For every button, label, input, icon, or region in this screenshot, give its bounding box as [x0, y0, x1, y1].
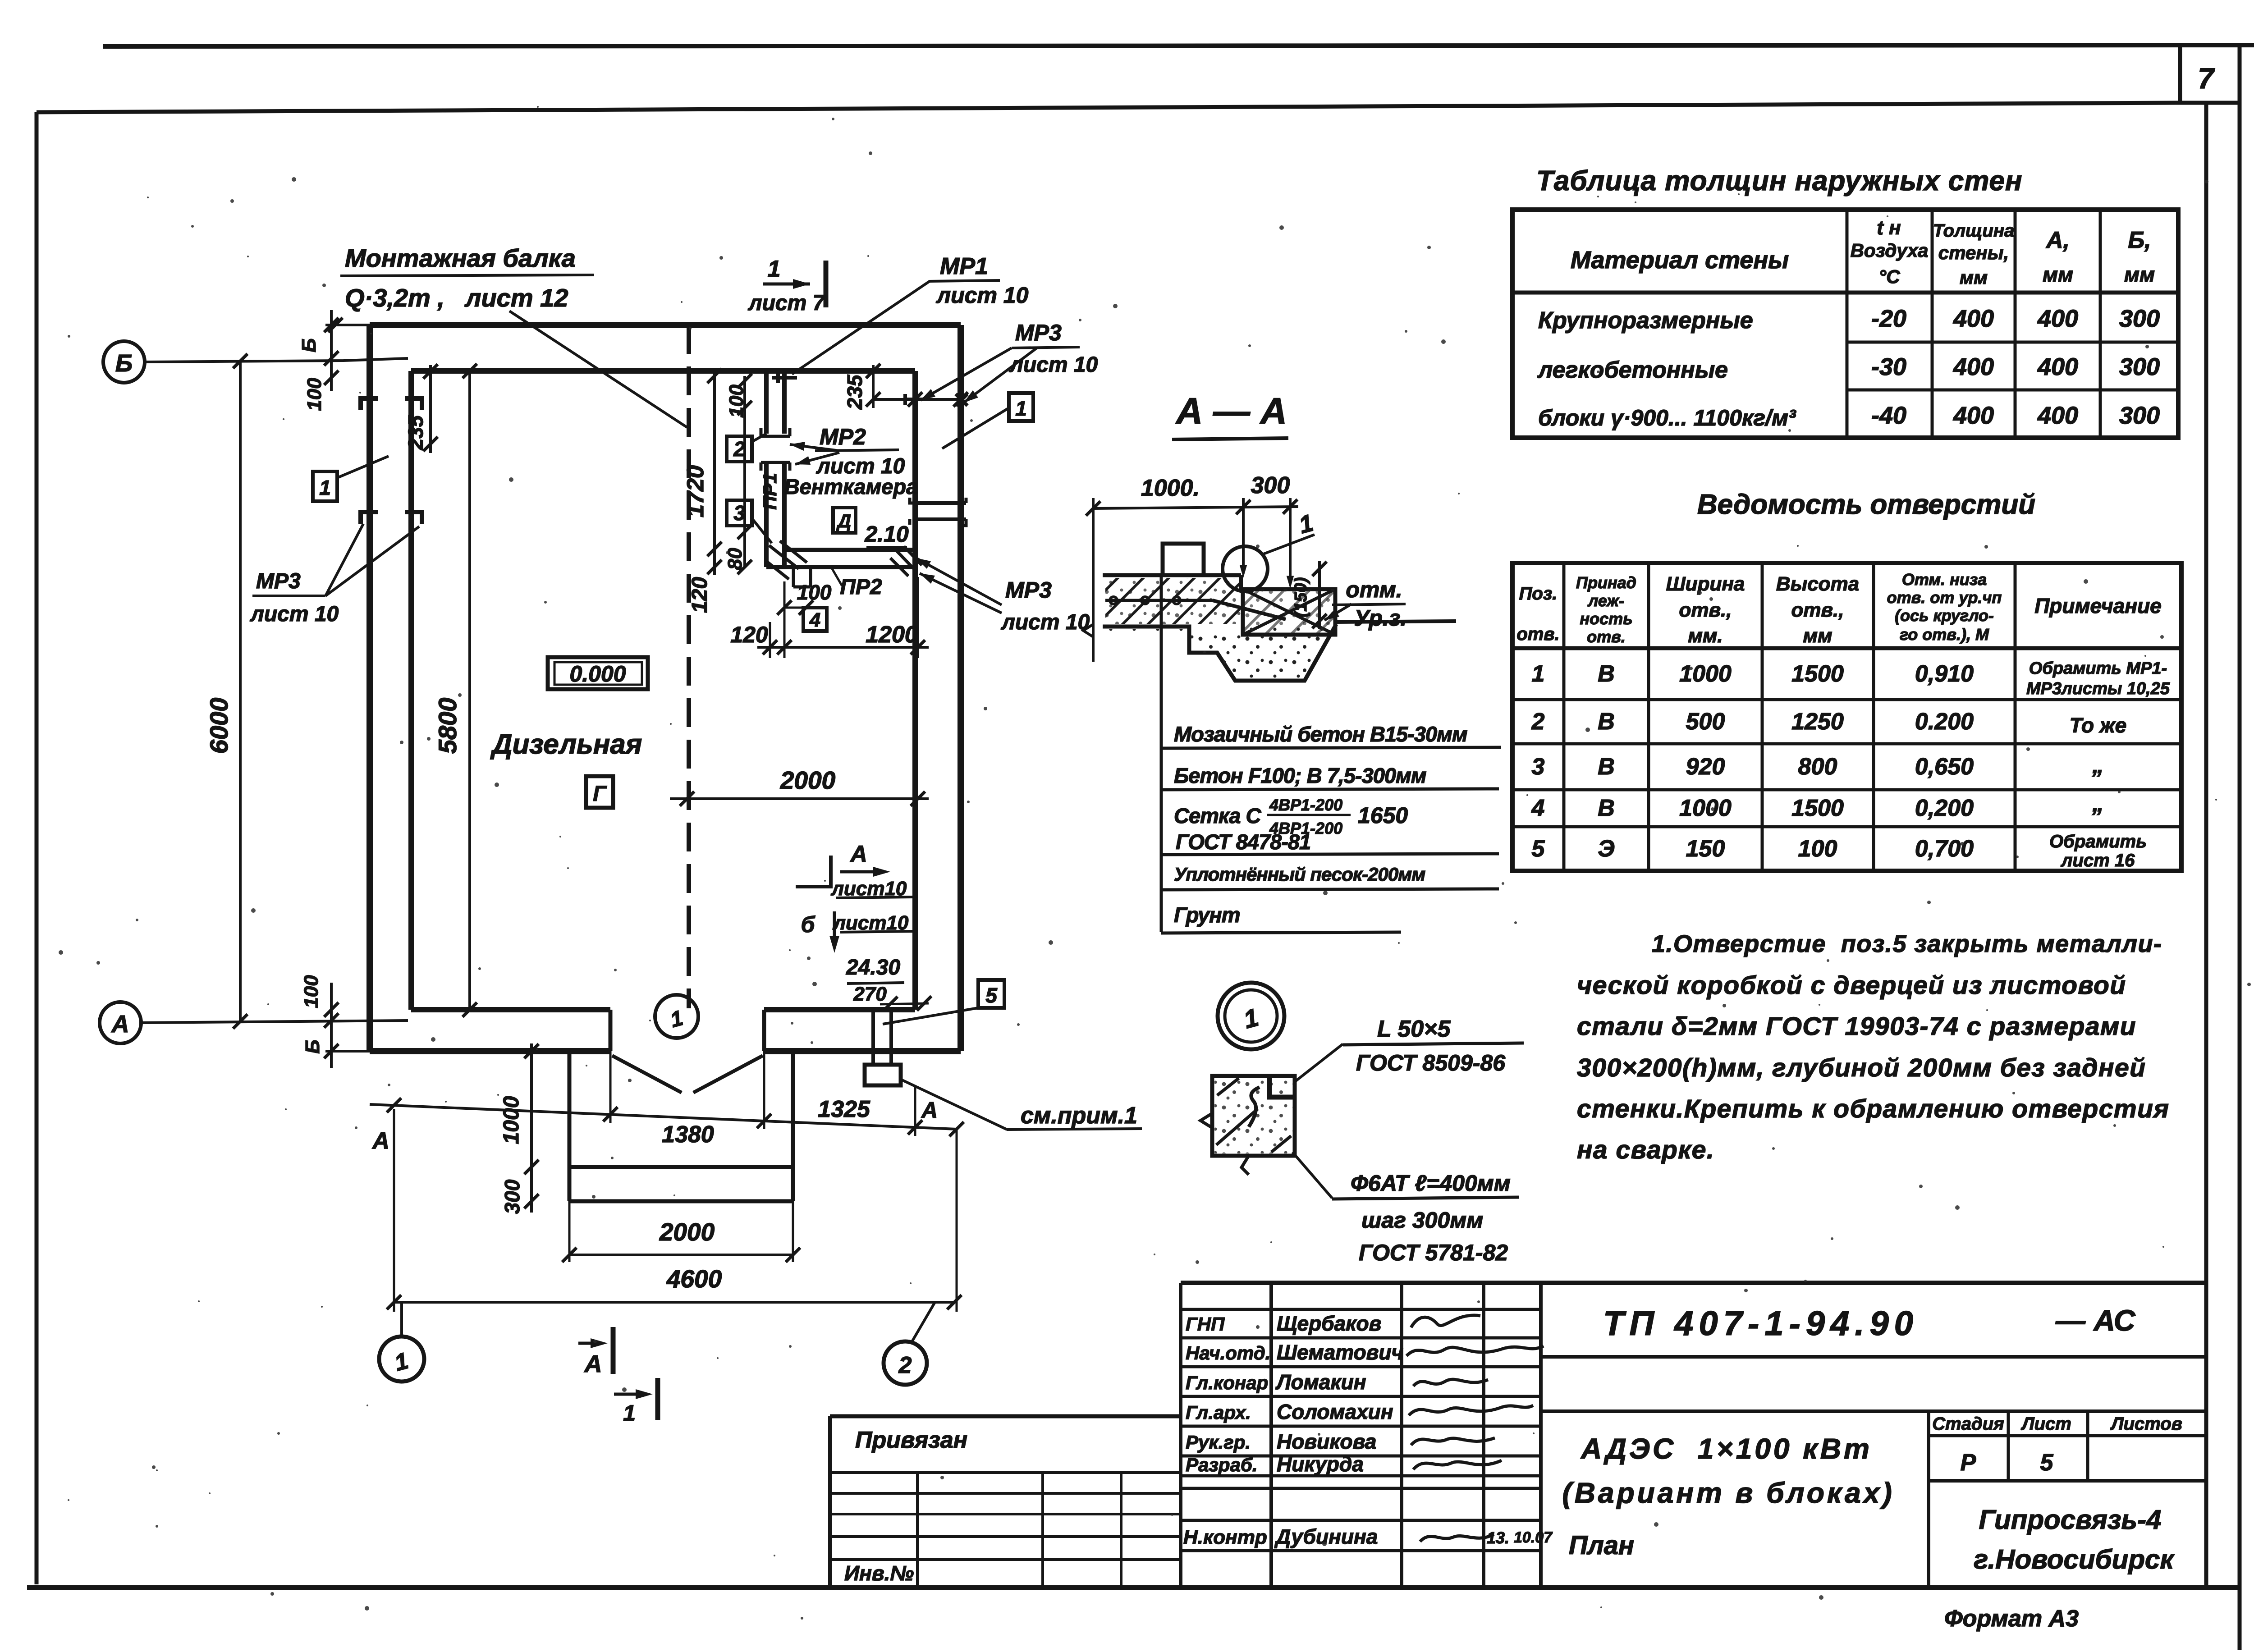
door jamb right: [762, 1010, 766, 1051]
svg-text:Гл.арх.: Гл.арх.: [1186, 1402, 1251, 1423]
svg-text:(ось кругло-: (ось кругло-: [1895, 606, 1994, 625]
svg-text:235: 235: [843, 374, 866, 410]
dim chain 100/80 left of partition: [743, 376, 746, 567]
page box bottom segment: [2180, 101, 2240, 105]
svg-text:лист 10: лист 10: [1009, 353, 1098, 377]
svg-text:Г: Г: [593, 782, 607, 806]
svg-text:Воздуха: Воздуха: [1851, 240, 1929, 261]
wall right inner: [912, 371, 918, 1010]
svg-text:Н.контр: Н.контр: [1183, 1526, 1267, 1548]
svg-text:-20: -20: [1871, 305, 1906, 332]
wall top inner: [411, 368, 915, 374]
svg-text:мм.: мм.: [1688, 625, 1723, 647]
svg-text:мм: мм: [1960, 267, 1988, 288]
svg-text:блоки γ·900... 1100кг/м³: блоки γ·900... 1100кг/м³: [1538, 405, 1796, 430]
svg-text:1: 1: [623, 1400, 636, 1426]
svg-text:400: 400: [1953, 353, 1994, 380]
dim 150 right of pit: [1318, 561, 1321, 629]
inner frame top line: [37, 103, 2180, 112]
svg-text:920: 920: [1686, 754, 1725, 780]
svg-text:Э: Э: [1598, 836, 1614, 862]
svg-text:Ширина: Ширина: [1666, 573, 1745, 595]
svg-text:1000.: 1000.: [1141, 475, 1200, 501]
floor layers leader line: [1160, 575, 1163, 932]
node circle 1 at beam end: [655, 995, 698, 1038]
svg-text:Дизельная: Дизельная: [490, 729, 642, 760]
section break mark left: [1083, 624, 1093, 637]
svg-text:Привязан: Привязан: [855, 1427, 967, 1453]
opening 3 hatch patch at PR1 bottom: [766, 541, 807, 579]
vent partition PR2 bottom face: [766, 565, 915, 569]
svg-text:Таблица толщин наружных стен: Таблица толщин наружных стен: [1536, 165, 2023, 197]
svg-text:Материал стены: Материал стены: [1571, 247, 1789, 274]
svg-text:300×200(h)мм, глубиной 200мм б: 300×200(h)мм, глубиной 200мм без задней: [1577, 1053, 2146, 1082]
svg-text:А: А: [849, 841, 867, 867]
svg-text:1000: 1000: [1679, 795, 1732, 821]
axis circle B: [103, 341, 145, 383]
svg-text:Q·3,2т , лист 12: Q·3,2т , лист 12: [345, 284, 568, 312]
wall bottom inner left segment: [411, 1007, 610, 1012]
svg-text:ческой коробкой с дверцей из л: ческой коробкой с дверцей из листовой: [1577, 971, 2126, 1000]
svg-text:0,200: 0,200: [1915, 795, 1974, 821]
dim chain 1720/120 left of vent: [713, 371, 716, 575]
svg-text:на сварке.: на сварке.: [1577, 1135, 1714, 1164]
svg-text:МР3: МР3: [1005, 577, 1052, 603]
svg-text:Шематович: Шематович: [1277, 1341, 1403, 1364]
svg-text:1: 1: [1015, 397, 1027, 420]
svg-text:Р: Р: [1961, 1450, 1976, 1476]
svg-text:Монтажная балка: Монтажная балка: [345, 244, 576, 272]
sheet top edge line: [103, 45, 2254, 46]
mesh reinforcement line with dots: [1105, 599, 1213, 602]
section mark A bottom free: [578, 1342, 600, 1345]
svg-text:2: 2: [898, 1352, 912, 1378]
position box 4: [803, 608, 827, 631]
svg-text:лист 10: лист 10: [250, 602, 339, 626]
opening 2 bracket marks on PR1: [761, 428, 790, 436]
svg-text:300: 300: [2119, 353, 2160, 380]
attachment table left: [830, 1414, 1181, 1419]
svg-text:1000: 1000: [499, 1096, 523, 1144]
frame bottom line: [27, 1585, 2240, 1590]
svg-text:100: 100: [725, 384, 747, 418]
svg-text:ГОСТ 8509-86: ГОСТ 8509-86: [1356, 1050, 1506, 1075]
svg-text:Щербаков: Щербаков: [1277, 1312, 1381, 1335]
svg-text:300: 300: [500, 1179, 524, 1214]
svg-text:Листов: Листов: [2110, 1414, 2182, 1434]
svg-text:Б: Б: [115, 350, 133, 377]
opening 1 marks across right wall: [915, 501, 966, 505]
svg-text:3: 3: [733, 501, 745, 525]
svg-text:0,910: 0,910: [1915, 661, 1974, 687]
svg-text:1: 1: [319, 476, 331, 499]
svg-text:400: 400: [2037, 305, 2078, 332]
door leaf right: [693, 1056, 763, 1093]
svg-text:1200: 1200: [866, 622, 918, 648]
small dim 100/B bottom-left: [330, 983, 333, 1068]
vent partition PR2 top face: [784, 548, 915, 552]
vent partition PR1 left face: [764, 371, 769, 434]
svg-text:24.30: 24.30: [846, 956, 900, 979]
svg-text:отв.,: отв.,: [1791, 599, 1844, 621]
svg-text:400: 400: [1953, 305, 1994, 332]
small dim B/100 top-left: [330, 310, 333, 391]
svg-text:Обрамить: Обрамить: [2049, 832, 2147, 851]
section mark 1 bottom free: [614, 1393, 646, 1396]
table 2 row lines: [1512, 698, 2181, 701]
svg-text:План: План: [1569, 1531, 1634, 1560]
svg-text:Высота: Высота: [1776, 573, 1859, 595]
svg-text:В: В: [1598, 709, 1615, 735]
svg-text:Инв.№: Инв.№: [844, 1561, 914, 1585]
axis circle 2 bottom: [884, 1341, 927, 1385]
node break marks: [1200, 1113, 1249, 1175]
position box 1 left: [313, 471, 337, 501]
svg-text:стены,: стены,: [1938, 242, 2009, 263]
svg-text:Сетка С: Сетка С: [1174, 804, 1261, 828]
svg-text:лист 7: лист 7: [748, 291, 826, 315]
frame right inner vertical: [2204, 103, 2208, 1588]
svg-text:Гл.конар: Гл.конар: [1186, 1372, 1268, 1393]
svg-text:отм.: отм.: [1346, 577, 1402, 602]
svg-text:1500: 1500: [1791, 661, 1844, 687]
position box 3: [727, 500, 752, 526]
svg-text:100: 100: [300, 975, 322, 1008]
svg-text:Грунт: Грунт: [1174, 903, 1240, 927]
svg-text:Крупноразмерные: Крупноразмерные: [1538, 307, 1753, 334]
wall extension line bottom-left: [325, 1050, 370, 1053]
dimension 6000 vertical line: [239, 361, 242, 1021]
dim chain 1380/1325/A bottom: [370, 1104, 957, 1129]
svg-text:2.10: 2.10: [864, 522, 909, 547]
dim line 120/1200 under vent chamber: [757, 646, 929, 649]
svg-text:1380: 1380: [662, 1121, 714, 1148]
svg-text:400: 400: [1953, 402, 1994, 429]
frame right outer vertical: [2238, 46, 2242, 1650]
svg-text:Б: Б: [302, 1039, 324, 1053]
mounting plate at partition top MP1: [772, 373, 797, 383]
svg-text:2: 2: [733, 437, 745, 461]
title block outer top: [1181, 1281, 2206, 1285]
svg-text:235: 235: [404, 415, 427, 450]
curb block on slab: [1163, 544, 1204, 575]
svg-text:120: 120: [730, 622, 768, 647]
svg-text:1250: 1250: [1791, 709, 1844, 735]
callout circle 1 in section: [1223, 546, 1268, 591]
svg-text:отв.: отв.: [1516, 624, 1559, 644]
svg-text:лист 16: лист 16: [2061, 851, 2135, 870]
svg-text:отв.,: отв.,: [1679, 599, 1732, 621]
svg-text:0,700: 0,700: [1915, 836, 1974, 862]
svg-text:— АС: — АС: [2055, 1304, 2136, 1337]
sand stipple under slab: [1103, 627, 1333, 681]
dim 1000/300 pit: [530, 1043, 533, 1213]
title block verticals signature part: [1179, 1283, 1182, 1588]
svg-text:270: 270: [853, 983, 887, 1005]
svg-text:В: В: [1598, 754, 1615, 780]
anchor squiggle: [1249, 1087, 1260, 1127]
slab bottom and excavation outline: [1103, 624, 1336, 681]
door leaf left: [612, 1056, 682, 1093]
svg-text:г.Новосибирск: г.Новосибирск: [1974, 1544, 2175, 1574]
wall bottom inner right segment: [764, 1007, 915, 1012]
svg-text:мм: мм: [2043, 263, 2073, 286]
svg-text:леж-: леж-: [1587, 591, 1624, 610]
svg-text:МР3: МР3: [256, 569, 301, 593]
ground line right of pit: [1335, 621, 1456, 622]
table 1 frame: [1512, 210, 2178, 438]
opening 5 lines in bottom wall: [871, 1009, 875, 1065]
section mark A inside plan: [796, 856, 831, 887]
svg-text:Ломакин: Ломакин: [1275, 1370, 1366, 1394]
entrance pit outline: [568, 1051, 572, 1201]
svg-text:120: 120: [688, 577, 712, 613]
door jamb left: [609, 1010, 613, 1051]
dim 4600 overall: [394, 1301, 954, 1304]
dim 2000 vent width: [670, 797, 929, 800]
svg-text:Д: Д: [836, 510, 851, 531]
mounting plate right-top outer MP3: [956, 394, 967, 406]
svg-text:1.Отверстие поз.5 закрыть мет: 1.Отверстие поз.5 закрыть металли-: [1652, 930, 2162, 957]
svg-text:7: 7: [2198, 62, 2215, 95]
svg-text:°С: °С: [1878, 266, 1900, 287]
slab step into pit: [1239, 575, 1243, 591]
svg-text:ГОСТ 5781-82: ГОСТ 5781-82: [1359, 1240, 1508, 1265]
mounting plate pair left wall MP3: [361, 512, 422, 524]
axis B line: [145, 358, 408, 362]
svg-text:Б,: Б,: [2128, 227, 2151, 253]
svg-text:МР2: МР2: [820, 424, 866, 449]
angle profile in node corner: [1269, 1076, 1295, 1097]
wall bottom outer right segment: [764, 1048, 961, 1054]
svg-text:стали δ=2мм ГОСТ 19903-74 с р: стали δ=2мм ГОСТ 19903-74 с размерами: [1577, 1012, 2136, 1041]
svg-text:шаг 300мм: шаг 300мм: [1361, 1208, 1483, 1233]
title block signature rows: [1181, 1308, 1541, 1311]
svg-text:-30: -30: [1871, 353, 1906, 380]
axis circle A: [100, 1002, 141, 1043]
svg-text:То же: То же: [2070, 714, 2127, 737]
svg-text:МР3листы 10,25: МР3листы 10,25: [2026, 679, 2170, 698]
svg-text:Обрамить МР1-: Обрамить МР1-: [2029, 659, 2167, 678]
svg-text:Бетон F100; В 7,5-300мм: Бетон F100; В 7,5-300мм: [1174, 764, 1426, 787]
svg-text:-40: -40: [1871, 402, 1906, 429]
svg-text:300: 300: [2119, 305, 2160, 332]
table 1 verticals: [1846, 210, 1849, 438]
svg-text:100: 100: [303, 378, 325, 411]
svg-text:Уплотнённый песок-200мм: Уплотнённый песок-200мм: [1174, 864, 1425, 885]
node detail circle 1: [1218, 983, 1284, 1049]
mounting plate pair top-left wall: [361, 398, 422, 410]
mounting plate right-top inner MP3: [905, 394, 923, 405]
svg-text:Стадия: Стадия: [1932, 1414, 2004, 1434]
svg-text:Новикова: Новикова: [1277, 1430, 1376, 1453]
svg-text:5: 5: [2040, 1450, 2054, 1476]
position box 2: [727, 436, 752, 462]
title block right area lines: [1541, 1355, 2206, 1359]
svg-text:0,650: 0,650: [1915, 754, 1974, 780]
svg-text:ность: ность: [1580, 609, 1632, 628]
svg-text:5800: 5800: [433, 698, 462, 754]
svg-text:4: 4: [1531, 795, 1545, 821]
svg-text:300: 300: [1251, 472, 1290, 499]
position box 1 right: [1009, 393, 1033, 421]
frame left vertical: [35, 112, 39, 1584]
svg-text:Принад: Принад: [1576, 573, 1636, 592]
svg-text:Гипросвязь-4: Гипросвязь-4: [1979, 1505, 2162, 1535]
svg-text:МР3: МР3: [1015, 320, 1062, 345]
axis circle 1 bottom: [379, 1336, 424, 1382]
svg-text:Отм. низа: Отм. низа: [1902, 570, 1987, 589]
svg-text:300: 300: [2119, 402, 2160, 429]
svg-text:80: 80: [724, 548, 746, 570]
svg-text:А: А: [371, 1128, 389, 1154]
svg-text:лист 10: лист 10: [936, 283, 1029, 308]
svg-text:стенки.Крепить к обрамлению от: стенки.Крепить к обрамлению отверстия: [1577, 1094, 2169, 1123]
svg-text:отв. от ур.чп: отв. от ур.чп: [1887, 588, 2002, 607]
dim 235 top-left: [429, 365, 432, 453]
svg-text:Ур.з.: Ур.з.: [1354, 605, 1406, 631]
svg-text:А: А: [584, 1350, 602, 1377]
svg-text:АДЭС 1×100 кВт: АДЭС 1×100 кВт: [1580, 1432, 1872, 1465]
table 2 verticals: [1562, 563, 1566, 871]
dimension 5800 vertical line: [468, 369, 471, 1010]
svg-text:0.000: 0.000: [569, 661, 626, 686]
svg-text:Ф6АТ ℓ=400мм: Ф6АТ ℓ=400мм: [1351, 1171, 1511, 1196]
signatures squiggles: [1411, 1315, 1480, 1327]
table 2 header line: [1512, 646, 2181, 650]
svg-text:6000: 6000: [205, 698, 233, 754]
wall extension line top-left: [325, 324, 370, 326]
PR2 right end hatch patch: [890, 546, 922, 576]
svg-text:Никурда: Никурда: [1277, 1452, 1364, 1476]
svg-text:Толщина: Толщина: [1933, 221, 2014, 241]
svg-text:1: 1: [1532, 661, 1545, 687]
svg-text:2: 2: [1531, 709, 1545, 735]
mounting beam dash line: [687, 325, 691, 1008]
wall top outer: [370, 322, 961, 328]
svg-text:4600: 4600: [666, 1265, 722, 1293]
svg-text:150: 150: [1686, 836, 1725, 862]
svg-text:500: 500: [1686, 709, 1725, 735]
svg-text:лист 10: лист 10: [816, 454, 905, 478]
wall right outer: [957, 325, 964, 1051]
svg-text:100: 100: [1798, 836, 1837, 862]
svg-text:4: 4: [809, 609, 820, 631]
svg-text:А — А: А — А: [1175, 391, 1287, 432]
position box 5: [978, 980, 1004, 1008]
svg-text:400: 400: [2037, 402, 2078, 429]
svg-text:1325: 1325: [818, 1096, 870, 1122]
svg-text:А: А: [111, 1011, 129, 1038]
room mark box G: [586, 776, 613, 808]
svg-text:отв.: отв.: [1587, 627, 1626, 646]
svg-text:1000: 1000: [1679, 661, 1732, 687]
svg-text:(Вариант в блоках): (Вариант в блоках): [1562, 1477, 1894, 1509]
svg-text:Формат А3: Формат А3: [1944, 1606, 2079, 1632]
svg-text:А: А: [921, 1098, 938, 1123]
svg-text:б: б: [801, 912, 816, 937]
svg-text:400: 400: [2037, 353, 2078, 380]
svg-text:см.прим.1: см.прим.1: [1021, 1103, 1137, 1129]
svg-text:Б: Б: [298, 338, 320, 352]
section A-A dim line 1000/300: [1093, 507, 1298, 508]
svg-text:1500: 1500: [1791, 795, 1844, 821]
svg-text:1720: 1720: [683, 465, 709, 517]
wall left inner: [408, 371, 414, 1010]
svg-text:Примечание: Примечание: [2034, 594, 2162, 618]
room mark box D: [833, 508, 856, 533]
floor slab hatched band: [1105, 578, 1241, 624]
table 1 row lines: [1847, 341, 2178, 344]
svg-text:t н: t н: [1877, 217, 1901, 239]
svg-text:Лист: Лист: [2020, 1414, 2071, 1434]
svg-text:Соломахин: Соломахин: [1277, 1400, 1393, 1423]
vent partition PR1 right face: [782, 371, 787, 434]
svg-text:(150): (150): [1292, 577, 1310, 618]
svg-text:2000: 2000: [780, 766, 836, 794]
svg-text:5: 5: [985, 984, 998, 1007]
beam leader line: [509, 311, 687, 427]
svg-text:5: 5: [1532, 836, 1545, 862]
axis A line: [141, 1020, 408, 1023]
svg-text:ТП 407-1-94.90: ТП 407-1-94.90: [1603, 1304, 1919, 1343]
svg-text:Мозаичный бетон В15-30мм: Мозаичный бетон В15-30мм: [1174, 722, 1467, 746]
wall bottom outer left segment: [370, 1048, 610, 1054]
svg-text:1: 1: [768, 256, 781, 282]
svg-text:А,: А,: [2045, 227, 2070, 253]
svg-text:Нач.отд.: Нач.отд.: [1186, 1342, 1270, 1364]
svg-text:лист 10: лист 10: [1001, 610, 1090, 634]
svg-text:Поз.: Поз.: [1519, 584, 1558, 604]
svg-text:13.: 13.: [1487, 1528, 1509, 1547]
svg-text:2000: 2000: [659, 1218, 715, 1246]
opening 5 metal box below wall: [865, 1065, 901, 1085]
svg-text:ГОСТ 8478-81: ГОСТ 8478-81: [1176, 830, 1310, 854]
page number box: [2178, 46, 2182, 103]
svg-text:„: „: [2092, 791, 2104, 817]
svg-text:легкобетонные: легкобетонные: [1537, 357, 1728, 383]
svg-text:800: 800: [1798, 754, 1837, 780]
svg-text:ПР1: ПР1: [759, 473, 780, 510]
svg-text:Разраб.: Разраб.: [1186, 1454, 1258, 1475]
table 2 frame: [1512, 563, 2181, 871]
svg-text:В: В: [1598, 661, 1615, 687]
dim 2000 pit width: [569, 1254, 793, 1256]
svg-text:ПР2: ПР2: [840, 575, 882, 599]
svg-text:мм: мм: [2124, 263, 2155, 286]
svg-text:0.200: 0.200: [1915, 709, 1974, 735]
svg-text:ГНП: ГНП: [1186, 1313, 1225, 1335]
pit block hatched: [1243, 589, 1335, 635]
svg-text:МР1: МР1: [940, 253, 988, 279]
leader to anchor F6AT: [1292, 1152, 1332, 1198]
level box 0.000: [548, 657, 648, 689]
table 1 header line: [1512, 291, 2178, 295]
svg-text:10.07: 10.07: [1514, 1529, 1553, 1546]
svg-text:1650: 1650: [1358, 803, 1408, 828]
title block right verticals: [1927, 1411, 1930, 1588]
dim 235 vent top right: [872, 365, 875, 408]
svg-text:го отв.), М: го отв.), М: [1900, 625, 1989, 644]
node detail concrete square: [1212, 1076, 1295, 1156]
svg-text:100: 100: [797, 581, 832, 604]
svg-text:Ведомость отверстий: Ведомость отверстий: [1697, 489, 2035, 520]
leader to angle L50x5: [1295, 1044, 1343, 1082]
svg-text:„: „: [2092, 752, 2104, 778]
svg-text:3: 3: [1532, 754, 1545, 780]
svg-text:Рук.гр.: Рук.гр.: [1186, 1432, 1251, 1453]
step at PR2 near opening 4: [793, 567, 811, 587]
